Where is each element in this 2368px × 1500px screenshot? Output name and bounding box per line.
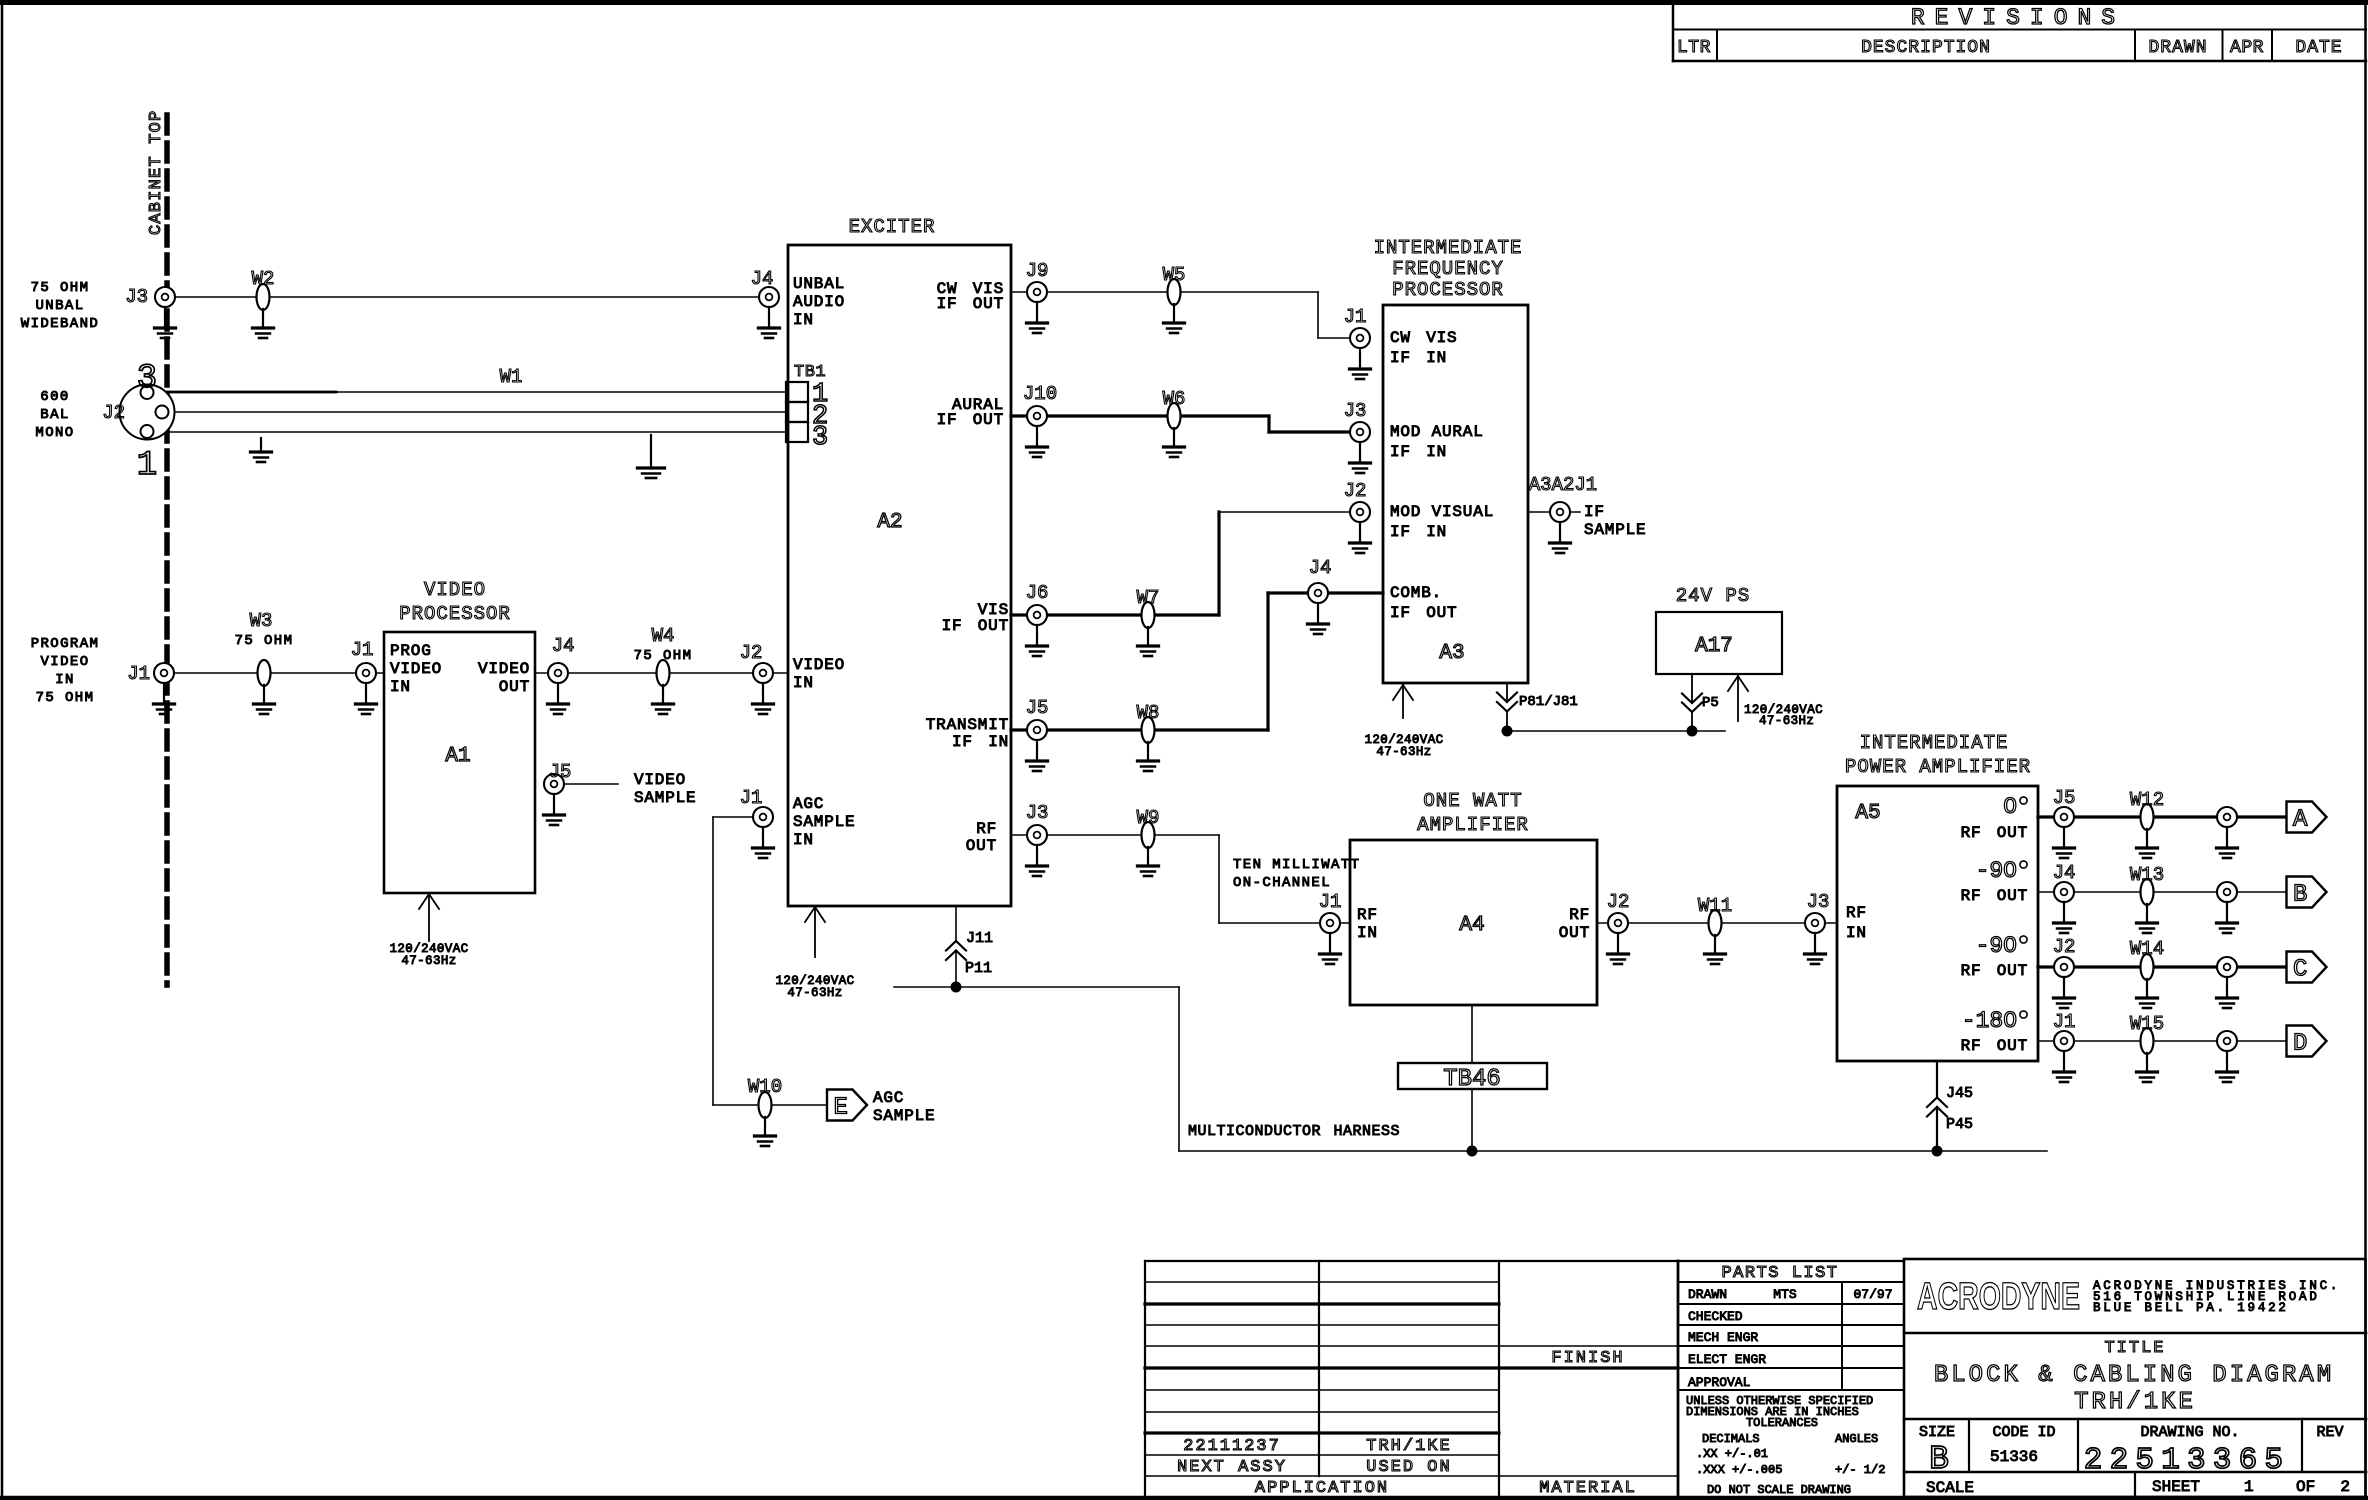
svg-text:ON-CHANNEL: ON-CHANNEL <box>1233 875 1331 891</box>
svg-text:D: D <box>2293 1031 2307 1058</box>
svg-text:W9: W9 <box>1137 807 1160 829</box>
svg-text:TRH/1KE: TRH/1KE <box>2074 1389 2196 1416</box>
svg-text:-18O: -18O <box>1962 1008 2017 1034</box>
svg-text:RF: RF <box>1569 906 1590 924</box>
svg-text:22513365: 22513365 <box>2084 1443 2290 1478</box>
svg-text:J1: J1 <box>127 663 150 685</box>
svg-text:600: 600 <box>40 389 69 405</box>
svg-text:RF OUT: RF OUT <box>1961 1037 2028 1055</box>
svg-text:SAMPLE: SAMPLE <box>1584 521 1646 539</box>
svg-text:MOD VISUAL: MOD VISUAL <box>1390 503 1494 521</box>
svg-text:W1: W1 <box>500 366 523 388</box>
svg-text:BAL: BAL <box>40 407 69 423</box>
svg-text:AGC: AGC <box>793 795 824 813</box>
svg-text:IF IN: IF IN <box>1390 443 1447 461</box>
svg-text:J3: J3 <box>125 286 148 308</box>
svg-text:J3: J3 <box>1807 891 1830 913</box>
svg-text:47-63Hz: 47-63Hz <box>401 954 456 968</box>
svg-text:RF: RF <box>1357 906 1378 924</box>
svg-text:W7: W7 <box>1137 587 1160 609</box>
svg-text:24V PS: 24V PS <box>1676 585 1750 607</box>
svg-text:75 OHM: 75 OHM <box>235 633 294 649</box>
svg-text:EXCITER: EXCITER <box>849 216 936 238</box>
svg-text:VIDEO: VIDEO <box>478 660 530 678</box>
svg-text:IF OUT: IF OUT <box>1390 604 1457 622</box>
svg-text:+/- 1/2: +/- 1/2 <box>1835 1463 1885 1477</box>
svg-text:CABINET TOP: CABINET TOP <box>147 110 166 235</box>
svg-text:ACRODYNE: ACRODYNE <box>1917 1276 2080 1318</box>
svg-text:3: 3 <box>137 360 157 398</box>
svg-text:INTERMEDIATE: INTERMEDIATE <box>1374 237 1523 259</box>
svg-text:A: A <box>2293 807 2308 834</box>
svg-text:IN: IN <box>390 678 411 696</box>
svg-text:W14: W14 <box>2130 938 2164 960</box>
svg-text:47-63Hz: 47-63Hz <box>787 986 842 1000</box>
svg-text:J1: J1 <box>1319 891 1342 913</box>
svg-text:DRAWING NO.: DRAWING NO. <box>2140 1424 2239 1441</box>
svg-text:J1: J1 <box>1344 306 1367 328</box>
svg-text:W3: W3 <box>250 610 273 632</box>
svg-text:TRANSMIT: TRANSMIT <box>926 716 1009 734</box>
svg-text:IF: IF <box>1584 503 1605 521</box>
svg-text:VIDEO: VIDEO <box>793 656 845 674</box>
svg-text:B: B <box>1929 1441 1949 1478</box>
svg-text:IF IN: IF IN <box>1390 523 1447 541</box>
svg-text:PROCESSOR: PROCESSOR <box>1392 279 1504 301</box>
svg-text:AUDIO: AUDIO <box>793 293 845 311</box>
svg-text:IN: IN <box>793 674 814 692</box>
svg-text:IN: IN <box>55 672 75 688</box>
svg-text:REVISIONS: REVISIONS <box>1911 5 2125 31</box>
svg-text:VIDEO: VIDEO <box>390 660 442 678</box>
svg-text:TITLE: TITLE <box>2104 1339 2165 1358</box>
svg-text:INTERMEDIATE: INTERMEDIATE <box>1860 732 2009 754</box>
svg-text:CHECKED: CHECKED <box>1688 1309 1743 1324</box>
svg-text:TB46: TB46 <box>1443 1066 1501 1093</box>
svg-text:J3: J3 <box>1344 400 1367 422</box>
svg-text:J10: J10 <box>1023 383 1057 405</box>
svg-text:SHEET: SHEET <box>2152 1478 2200 1496</box>
svg-text:AGC: AGC <box>873 1089 904 1107</box>
svg-text:-9O: -9O <box>1976 933 2017 959</box>
svg-text:APR: APR <box>2230 38 2264 58</box>
svg-text:PROG: PROG <box>390 642 432 660</box>
svg-text:SCALE: SCALE <box>1926 1479 1974 1497</box>
svg-text:J3: J3 <box>1026 802 1049 824</box>
svg-text:C: C <box>2293 957 2307 984</box>
svg-text:PROCESSOR: PROCESSOR <box>399 603 511 625</box>
svg-text:51336: 51336 <box>1990 1448 2038 1466</box>
svg-text:J45: J45 <box>1946 1085 1973 1102</box>
svg-text:W4: W4 <box>652 625 675 647</box>
svg-text:DATE: DATE <box>2295 38 2342 58</box>
svg-text:47-63Hz: 47-63Hz <box>1759 714 1814 728</box>
svg-text:J2: J2 <box>102 402 125 424</box>
svg-text:J1: J1 <box>351 639 374 661</box>
svg-text:W13: W13 <box>2130 864 2164 886</box>
svg-text:POWER AMPLIFIER: POWER AMPLIFIER <box>1845 756 2031 778</box>
svg-text:J9: J9 <box>1026 260 1049 282</box>
svg-text:WIDEBAND: WIDEBAND <box>21 316 99 332</box>
svg-text:.XX +/-.01: .XX +/-.01 <box>1696 1447 1768 1461</box>
svg-text:A1: A1 <box>445 745 470 768</box>
svg-text:B: B <box>2293 882 2307 909</box>
svg-text:J2: J2 <box>1344 480 1367 502</box>
svg-text:TEN MILLIWATT: TEN MILLIWATT <box>1233 857 1360 873</box>
svg-text:APPLICATION: APPLICATION <box>1255 1479 1389 1498</box>
svg-text:.XXX +/-.005: .XXX +/-.005 <box>1696 1463 1782 1477</box>
svg-text:OUT: OUT <box>966 837 997 855</box>
svg-text:1: 1 <box>2244 1478 2254 1496</box>
svg-text:PROGRAM: PROGRAM <box>31 636 100 652</box>
svg-text:ELECT ENGR: ELECT ENGR <box>1688 1352 1766 1367</box>
svg-text:W2: W2 <box>252 268 275 290</box>
svg-text:APPROVAL: APPROVAL <box>1688 1375 1750 1390</box>
svg-text:CODE ID: CODE ID <box>1992 1424 2055 1441</box>
svg-text:TRH/1KE: TRH/1KE <box>1366 1437 1451 1456</box>
svg-text:75 OHM: 75 OHM <box>634 648 693 664</box>
svg-text:MULTICONDUCTOR HARNESS: MULTICONDUCTOR HARNESS <box>1188 1123 1400 1140</box>
svg-text:SIZE: SIZE <box>1919 1424 1955 1441</box>
svg-text:AMPLIFIER: AMPLIFIER <box>1417 814 1529 836</box>
svg-text:ONE WATT: ONE WATT <box>1423 790 1522 812</box>
svg-text:J1: J1 <box>2053 1011 2076 1033</box>
svg-text:LTR: LTR <box>1677 38 1711 58</box>
svg-text:USED ON: USED ON <box>1366 1458 1451 1477</box>
svg-text:J4: J4 <box>2053 862 2076 884</box>
svg-text:J6: J6 <box>1026 582 1049 604</box>
svg-text:MATERIAL: MATERIAL <box>1539 1479 1637 1498</box>
svg-text:VIDEO: VIDEO <box>40 654 89 670</box>
svg-text:FREQUENCY: FREQUENCY <box>1392 258 1504 280</box>
svg-text:MECH ENGR: MECH ENGR <box>1688 1330 1758 1345</box>
svg-text:A3A2J1: A3A2J1 <box>1529 474 1597 496</box>
svg-text:RF: RF <box>976 820 997 838</box>
svg-text:A5: A5 <box>1855 802 1880 825</box>
svg-text:P45: P45 <box>1946 1116 1973 1133</box>
svg-text:ANGLES: ANGLES <box>1835 1432 1878 1446</box>
svg-text:RF OUT: RF OUT <box>1961 824 2028 842</box>
svg-text:IF OUT: IF OUT <box>942 617 1009 635</box>
svg-text:OF: OF <box>2296 1478 2315 1496</box>
svg-text:J4: J4 <box>751 268 774 290</box>
svg-text:VIDEO: VIDEO <box>634 771 686 789</box>
svg-text:W10: W10 <box>748 1076 782 1098</box>
svg-text:NEXT ASSY: NEXT ASSY <box>1177 1458 1287 1477</box>
svg-text:P81/J81: P81/J81 <box>1519 694 1578 710</box>
svg-text:SAMPLE: SAMPLE <box>873 1107 935 1125</box>
svg-text:2: 2 <box>2340 1478 2350 1496</box>
svg-text:DECIMALS: DECIMALS <box>1702 1432 1760 1446</box>
svg-text:FINISH: FINISH <box>1551 1349 1624 1368</box>
svg-text:P11: P11 <box>965 960 992 977</box>
svg-text:IF OUT: IF OUT <box>937 295 1004 313</box>
svg-text:J2: J2 <box>2053 936 2076 958</box>
svg-text:DRAWN: DRAWN <box>1688 1287 1727 1302</box>
svg-text:SAMPLE: SAMPLE <box>793 813 855 831</box>
svg-text:A17: A17 <box>1695 635 1733 658</box>
svg-text:J1: J1 <box>740 787 763 809</box>
svg-text:SAMPLE: SAMPLE <box>634 789 696 807</box>
svg-text:J4: J4 <box>1309 557 1332 579</box>
svg-text:W15: W15 <box>2130 1013 2164 1035</box>
svg-text:OUT: OUT <box>1559 924 1590 942</box>
svg-text:P5: P5 <box>1702 695 1719 711</box>
svg-text:E: E <box>834 1095 848 1122</box>
svg-text:IN: IN <box>1357 924 1378 942</box>
svg-text:J5: J5 <box>549 761 572 783</box>
svg-text:TOLERANCES: TOLERANCES <box>1746 1416 1818 1430</box>
svg-text:CW VIS: CW VIS <box>1390 329 1457 347</box>
svg-text:MTS: MTS <box>1773 1287 1797 1302</box>
svg-text:07/97: 07/97 <box>1853 1287 1892 1302</box>
svg-text:W8: W8 <box>1137 702 1160 724</box>
svg-text:RF: RF <box>1846 904 1867 922</box>
svg-text:W12: W12 <box>2130 789 2164 811</box>
svg-text:-9O: -9O <box>1976 858 2017 884</box>
svg-text:J2: J2 <box>740 642 763 664</box>
svg-text:BLOCK & CABLING DIAGRAM: BLOCK & CABLING DIAGRAM <box>1934 1362 2334 1389</box>
svg-text:BLUE BELL PA. 19422: BLUE BELL PA. 19422 <box>2093 1301 2289 1315</box>
svg-text:A2: A2 <box>877 511 902 534</box>
svg-text:3: 3 <box>812 423 828 453</box>
svg-text:O: O <box>2003 794 2017 820</box>
svg-text:75 OHM: 75 OHM <box>31 280 90 296</box>
svg-text:IN: IN <box>1846 924 1867 942</box>
svg-text:J5: J5 <box>1026 697 1049 719</box>
svg-text:J11: J11 <box>966 930 993 947</box>
svg-text:IN: IN <box>793 831 814 849</box>
svg-text:1: 1 <box>137 447 157 485</box>
svg-text:OUT: OUT <box>499 678 530 696</box>
svg-text:IF IN: IF IN <box>1390 349 1447 367</box>
svg-text:IF OUT: IF OUT <box>937 411 1004 429</box>
svg-text:COMB.: COMB. <box>1390 584 1442 602</box>
svg-text:W11: W11 <box>1698 895 1732 917</box>
svg-text:22111237: 22111237 <box>1183 1437 1281 1456</box>
svg-text:PARTS LIST: PARTS LIST <box>1721 1264 1838 1283</box>
svg-text:A3: A3 <box>1439 642 1464 665</box>
svg-text:A4: A4 <box>1459 914 1484 937</box>
svg-text:MOD AURAL: MOD AURAL <box>1390 423 1484 441</box>
svg-text:W5: W5 <box>1163 264 1186 286</box>
svg-text:DESCRIPTION: DESCRIPTION <box>1861 38 1991 58</box>
svg-text:J2: J2 <box>1607 891 1630 913</box>
svg-text:IN: IN <box>793 311 814 329</box>
svg-text:RF OUT: RF OUT <box>1961 887 2028 905</box>
svg-text:RF OUT: RF OUT <box>1961 962 2028 980</box>
svg-text:MONO: MONO <box>35 425 74 441</box>
svg-text:75 OHM: 75 OHM <box>36 690 95 706</box>
svg-text:J5: J5 <box>2053 787 2076 809</box>
svg-text:J4: J4 <box>552 635 575 657</box>
svg-text:W6: W6 <box>1163 388 1186 410</box>
svg-text:VIDEO: VIDEO <box>424 579 486 601</box>
svg-text:IF IN: IF IN <box>952 733 1009 751</box>
svg-text:REV: REV <box>2316 1424 2343 1441</box>
svg-text:DO NOT SCALE DRAWING: DO NOT SCALE DRAWING <box>1707 1483 1851 1497</box>
svg-text:47-63Hz: 47-63Hz <box>1376 745 1431 759</box>
svg-text:UNBAL: UNBAL <box>35 298 84 314</box>
svg-text:DRAWN: DRAWN <box>2148 38 2207 58</box>
svg-text:UNBAL: UNBAL <box>793 275 845 293</box>
